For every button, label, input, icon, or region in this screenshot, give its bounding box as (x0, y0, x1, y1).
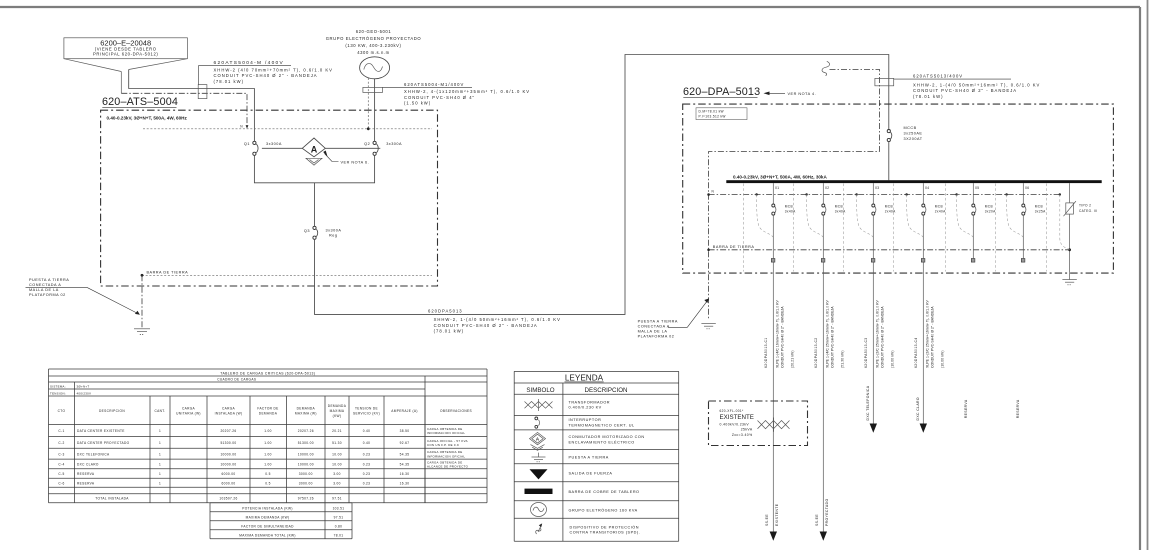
svg-text:1.00: 1.00 (264, 441, 272, 445)
svg-text:DATA CENTER PROYECTADO: DATA CENTER PROYECTADO (77, 441, 130, 445)
feeder source box 6200-E-20048 (64, 38, 187, 72)
svg-text:3000.00: 3000.00 (299, 472, 313, 476)
svg-text:10000.00: 10000.00 (220, 463, 236, 467)
svg-text:02: 02 (825, 186, 829, 190)
svg-text:VER NOTA 6.: VER NOTA 6. (341, 160, 370, 164)
ATS neutral bar (dotted) (143, 128, 432, 130)
svg-text:XLPE 1-(2/C 25mm²+16mm² T), 0.: XLPE 1-(2/C 25mm²+16mm² T), 0.6/1.0 KV (875, 299, 879, 368)
svg-text:620ATS5004-M /400V: 620ATS5004-M /400V (214, 60, 285, 66)
svg-text:3x250AE: 3x250AE (904, 131, 923, 135)
legend text power outlet (569, 471, 613, 475)
circuit 04 neutral hook (905, 193, 923, 237)
cable label 620ATS5013/400V (894, 74, 1041, 99)
svg-text:54.35: 54.35 (400, 452, 410, 456)
svg-text:CARGA: CARGA (182, 406, 196, 410)
feeder drop C-4 destination label (916, 397, 920, 420)
svg-text:DXC CLARO: DXC CLARO (916, 397, 920, 420)
svg-text:EXISTENTE: EXISTENTE (720, 414, 754, 421)
svg-text:3x300A: 3x300A (266, 142, 282, 146)
load table headers (58, 404, 472, 418)
svg-text:06: 06 (1025, 186, 1029, 190)
svg-text:XLPE 1-(4/C 25mm²+16mm² T), 0.: XLPE 1-(4/C 25mm²+16mm² T), 0.6/1.0 KV (825, 299, 829, 368)
svg-text:103507.26: 103507.26 (219, 497, 237, 501)
circuit 06 separator (995, 184, 997, 272)
svg-text:3000.00: 3000.00 (299, 482, 313, 486)
svg-text:620ATS5013/400V: 620ATS5013/400V (913, 74, 963, 79)
svg-text:CONDUIT PVC-SH40 Ø 2" - BANDEJ: CONDUIT PVC-SH40 Ø 2" - BANDEJA (881, 306, 885, 368)
svg-text:MCB: MCB (785, 205, 793, 209)
svg-text:51.30: 51.30 (332, 441, 342, 445)
load table data rows (58, 427, 468, 486)
svg-text:ALCANCE DE PROYECTO: ALCANCE DE PROYECTO (427, 465, 469, 469)
svg-text:3x40A: 3x40A (835, 210, 846, 214)
feeder drop C-3 cable spec (875, 299, 894, 368)
svg-text:TABLERO DE CARGAS CRITICAS (62: TABLERO DE CARGAS CRITICAS (620-DPA-5013… (220, 371, 315, 375)
ATS ground bar BARRA DE TIERRA (141, 271, 432, 277)
note PUESTA A TIERRA (ATS) with leader (26, 278, 140, 315)
legend symbol motorized switch (530, 432, 546, 450)
svg-text:XLPE 1-(2/C 25mm²+16mm² T), 0.: XLPE 1-(2/C 25mm²+16mm² T), 0.6/1.0 KV (925, 299, 929, 368)
transformer T1 winding symbol (758, 418, 790, 432)
svg-text:MAXIMA DEMANDA TOTAL (KW): MAXIMA DEMANDA TOTAL (KW) (239, 533, 296, 537)
svg-text:SS.EE: SS.EE (765, 514, 769, 526)
svg-text:1: 1 (159, 429, 161, 433)
svg-text:(1.50 kW): (1.50 kW) (404, 100, 431, 105)
svg-text:RESERVA: RESERVA (1016, 399, 1020, 418)
feeder drop C-4 cable spec (925, 299, 944, 368)
circuit 04 tap and breaker MCB 2x40A (922, 183, 946, 215)
svg-text:INFORMACION OFICIAL: INFORMACION OFICIAL (427, 431, 465, 435)
svg-text:PUESTA A TIERRA: PUESTA A TIERRA (29, 278, 69, 282)
svg-text:16.30: 16.30 (400, 472, 410, 476)
svg-text:MAXIMA: MAXIMA (330, 409, 345, 413)
feeder drop C-2 (820, 262, 827, 541)
svg-text:PLATAFORMA 02: PLATAFORMA 02 (638, 334, 675, 338)
svg-text:97507.26: 97507.26 (298, 497, 314, 501)
svg-text:ENCLAVAMIENTO ELÉCTRICO: ENCLAVAMIENTO ELÉCTRICO (569, 439, 635, 444)
svg-text:0.40-0.23kV, 3Ø+N+T, 500A, 4W,: 0.40-0.23kV, 3Ø+N+T, 500A, 4W, 60Hz, 30k… (733, 175, 827, 180)
svg-text:PROYECTADO: PROYECTADO (825, 499, 829, 527)
svg-text:CON UN F.P. DE 0.9: CON UN F.P. DE 0.9 (427, 443, 459, 447)
svg-text:620DPA5013: 620DPA5013 (428, 308, 463, 313)
svg-text:(20.21 kW): (20.21 kW) (790, 350, 794, 368)
feeder drop C-2 cable tag (814, 337, 818, 368)
svg-text:103.51: 103.51 (333, 506, 345, 510)
svg-text:RESERVA: RESERVA (77, 472, 95, 476)
circuit 05 outgoing wire and meter square (971, 215, 975, 262)
svg-text:10.00: 10.00 (332, 452, 342, 456)
circuit 02 neutral hook (805, 193, 823, 237)
svg-text:3.00: 3.00 (333, 482, 341, 486)
circuit 06 outgoing wire and meter square (1021, 215, 1025, 262)
circuit 04 separator (893, 184, 895, 272)
svg-text:MCCB: MCCB (904, 126, 917, 130)
svg-text:GRUPO ELETRÓGENO 160 KVA: GRUPO ELETRÓGENO 160 KVA (569, 507, 638, 512)
svg-text:0.23: 0.23 (363, 482, 371, 486)
svg-text:0.40: 0.40 (363, 441, 371, 445)
svg-text:51300.00: 51300.00 (220, 441, 236, 445)
svg-text:C-3: C-3 (58, 452, 64, 456)
svg-text:1: 1 (159, 472, 161, 476)
border frame right line (1139, 7, 1141, 550)
svg-text:XLPE 1-(4/C 16mm²+16mm² T), 0.: XLPE 1-(4/C 16mm²+16mm² T), 0.6/1.0 KV (775, 299, 779, 368)
conduit symbol feeder cable (198, 85, 207, 99)
svg-text:DATA CENTER EXISTENTE: DATA CENTER EXISTENTE (77, 429, 125, 433)
svg-text:A: A (311, 145, 318, 155)
svg-text:620DPA5013-C1: 620DPA5013-C1 (764, 337, 768, 368)
svg-text:TOTAL INSTALADA: TOTAL INSTALADA (95, 497, 129, 501)
svg-text:PUESTA A TIERRA: PUESTA A TIERRA (569, 455, 609, 459)
cable label 620ATS5004-M1/400V (383, 82, 531, 105)
circuit 02 separator (793, 184, 795, 272)
feeder drop C-4 (920, 262, 927, 433)
circuit 01 outgoing wire and meter square (771, 215, 775, 262)
svg-text:PLATAFORMA 02: PLATAFORMA 02 (29, 293, 66, 297)
svg-text:MALLA DE LA: MALLA DE LA (638, 329, 668, 333)
svg-text:C-1: C-1 (58, 429, 64, 433)
svg-text:0.400/0.230 KV: 0.400/0.230 KV (569, 406, 602, 410)
feeder drop C-1 cable spec (775, 299, 794, 368)
feeder drop C-2 destination label (815, 499, 829, 527)
svg-text:SERVICIO (KV): SERVICIO (KV) (353, 412, 380, 416)
legend text transformer (569, 400, 611, 409)
svg-text:CUADRO DE CARGAS: CUADRO DE CARGAS (217, 378, 256, 382)
svg-text:Reg: Reg (329, 234, 337, 238)
svg-text:10000.00: 10000.00 (220, 452, 236, 456)
svg-text:TIPO 2: TIPO 2 (1079, 204, 1091, 208)
svg-text:MCB: MCB (985, 205, 993, 209)
svg-text:AMPERAJE (A): AMPERAJE (A) (391, 409, 418, 413)
svg-text:400/230V: 400/230V (77, 391, 92, 395)
svg-text:97.51: 97.51 (332, 497, 342, 501)
busbar rating label (733, 175, 827, 180)
panel title 620-DPA-5013 (683, 86, 760, 98)
wire feeder phase (solid) to Q1 (129, 70, 255, 142)
svg-text:PRINCIPAL 620-DPA-5012): PRINCIPAL 620-DPA-5012) (93, 51, 158, 56)
svg-text:DEMANDA: DEMANDA (259, 412, 278, 416)
svg-text:620ATS5004-M1/400V: 620ATS5004-M1/400V (404, 82, 464, 87)
svg-text:GRUPO ELECTRÓGENO PROYECTADO: GRUPO ELECTRÓGENO PROYECTADO (326, 36, 422, 41)
svg-text:CONDUIT PVC-SH40 Ø 4": CONDUIT PVC-SH40 Ø 4" (404, 95, 475, 100)
svg-text:POTENCIA INSTALADA (KW): POTENCIA INSTALADA (KW) (242, 506, 293, 510)
svg-text:TENSION DE: TENSION DE (355, 406, 378, 410)
circuit C-5 reserva label (964, 399, 968, 418)
svg-text:3Ø+N+T: 3Ø+N+T (77, 384, 90, 388)
leader VER NOTA 6 (323, 151, 369, 165)
wire feeder neutral (dash-dot) to neutral bar (121, 72, 248, 129)
svg-text:DEMANDA: DEMANDA (297, 406, 316, 410)
legend table LEYENDA grid (514, 371, 679, 541)
svg-text:04: 04 (925, 186, 929, 190)
svg-text:DISPOSITIVO DE PROTECCIÓN: DISPOSITIVO DE PROTECCIÓN (570, 524, 639, 529)
circuit 01 separator (743, 184, 745, 272)
svg-text:RESERVA: RESERVA (964, 399, 968, 418)
feeder drop C-1 (770, 262, 777, 541)
feeder drop C-2 cable spec (825, 299, 844, 368)
circuit 03 neutral hook (855, 193, 873, 237)
circuit 01 tap and breaker MCB 3x40A (772, 183, 796, 215)
svg-text:3.00: 3.00 (333, 472, 341, 476)
svg-text:6000.00: 6000.00 (222, 472, 236, 476)
svg-text:UNITARIA (W): UNITARIA (W) (176, 412, 201, 416)
svg-text:2x40A: 2x40A (885, 210, 896, 214)
ATS rating label (107, 116, 188, 121)
svg-text:3x300A: 3x300A (386, 142, 402, 146)
svg-text:TRANSFORMADOR: TRANSFORMADOR (569, 400, 611, 404)
load table CUADRO DE CARGAS grid (49, 369, 488, 539)
breaker Q1 3x300A (244, 141, 282, 155)
svg-text:OBSERVACIONES: OBSERVACIONES (440, 409, 472, 413)
svg-text:1.00: 1.00 (264, 429, 272, 433)
svg-text:92.67: 92.67 (400, 441, 410, 445)
svg-text:CONDUIT PVC-SH40 Ø 2" - BANDEJ: CONDUIT PVC-SH40 Ø 2" - BANDEJA (931, 306, 935, 368)
generator G1 symbol (360, 57, 390, 79)
legend text copper bar (569, 490, 640, 494)
svg-text:MCB: MCB (1035, 205, 1043, 209)
svg-text:4300 m.s.n.m: 4300 m.s.n.m (357, 50, 390, 55)
svg-text:(KW): (KW) (333, 414, 342, 418)
svg-text:C-5: C-5 (58, 472, 64, 476)
panel title 620-ATS-5004 (102, 96, 178, 108)
leader arrow VER NOTA 4 (764, 92, 817, 97)
svg-text:INSTALADA (W): INSTALADA (W) (215, 412, 243, 416)
svg-text:Q2: Q2 (364, 142, 370, 146)
wire ATS output route to DPA panel (315, 55, 889, 315)
svg-text:0.80: 0.80 (335, 524, 343, 528)
wire MCCB to busbar (888, 142, 890, 181)
border sheet edge line (1147, 0, 1149, 550)
breaker Q2 3x300A (364, 141, 402, 155)
svg-text:XHHW-2, 4-(1x120mm²+35mm² T),: XHHW-2, 4-(1x120mm²+35mm² T), 0.6/1.0 KV (404, 89, 530, 94)
svg-text:3x25A: 3x25A (1035, 210, 1046, 214)
svg-text:0.40-0.23kV, 3Ø+N+T, 500A, 4W,: 0.40-0.23kV, 3Ø+N+T, 500A, 4W, 60Hz (107, 116, 188, 121)
svg-text:CTO: CTO (58, 409, 66, 413)
svg-text:C-2: C-2 (58, 441, 64, 445)
svg-text:05: 05 (975, 186, 979, 190)
legend text motorized switch (569, 435, 645, 444)
feeder drop C-3 (870, 262, 877, 433)
circuit 04 outgoing wire and meter square (921, 215, 925, 262)
ATS enclosure dashed box (101, 110, 438, 286)
svg-text:(78.01 kW): (78.01 kW) (434, 328, 464, 333)
conduit symbol generator cable (363, 87, 383, 92)
cable label 620ATS5004-M /400V (199, 60, 333, 85)
svg-text:25kVA: 25kVA (741, 428, 753, 432)
svg-text:Zcc=3.40%: Zcc=3.40% (732, 433, 753, 437)
svg-text:DESCRIPCION: DESCRIPCION (585, 387, 628, 394)
circuit 05 separator (945, 184, 947, 272)
svg-text:20207.26: 20207.26 (220, 429, 236, 433)
wire DPA neutral dash-dot route (707, 69, 879, 318)
svg-text:FACTOR DE SIMULTANEIDAD: FACTOR DE SIMULTANEIDAD (241, 524, 294, 528)
svg-text:97.51: 97.51 (334, 515, 344, 519)
svg-text:0.23: 0.23 (363, 472, 371, 476)
svg-text:620DPA5013-C3: 620DPA5013-C3 (864, 337, 868, 368)
svg-text:(10.00 kW): (10.00 kW) (940, 350, 944, 368)
load table titles (50, 371, 315, 395)
svg-text:0.23: 0.23 (363, 463, 371, 467)
legend titles (526, 374, 627, 395)
svg-text:CATEG. III: CATEG. III (1079, 209, 1098, 213)
svg-text:620-GEO-5001: 620-GEO-5001 (356, 29, 392, 34)
svg-text:EXISTENTE: EXISTENTE (775, 503, 779, 526)
svg-text:BARRA DE TIERRA: BARRA DE TIERRA (147, 271, 189, 275)
svg-text:TERMOMAGNETICO CERT. UL: TERMOMAGNETICO CERT. UL (569, 423, 635, 427)
svg-text:16.30: 16.30 (400, 482, 410, 486)
svg-text:1.00: 1.00 (264, 463, 272, 467)
wire Q1/Q2 output bar (254, 155, 374, 182)
svg-text:RESERVA: RESERVA (77, 482, 95, 486)
legend symbol transformer (525, 399, 553, 411)
svg-text:620DPA5013-C4: 620DPA5013-C4 (914, 337, 918, 368)
border frame top line (0, 6, 1140, 8)
svg-text:1: 1 (159, 463, 161, 467)
svg-text:FACTOR DE: FACTOR DE (257, 406, 278, 410)
break symbol (continuation squiggle) (822, 61, 830, 75)
circuit 06 neutral hook (1005, 193, 1023, 237)
svg-text:1: 1 (159, 482, 161, 486)
svg-text:CONMUTADOR MOTORIZADO CON: CONMUTADOR MOTORIZADO CON (569, 435, 645, 439)
svg-text:1: 1 (159, 441, 161, 445)
transfer switch diamond A (motorized) (302, 138, 325, 165)
svg-text:C-4: C-4 (58, 463, 64, 467)
svg-text:3x20A: 3x20A (985, 210, 996, 214)
circuit 03 outgoing wire and meter square (871, 215, 875, 262)
svg-text:SALIDA DE FUERZA: SALIDA DE FUERZA (569, 471, 613, 475)
transformer T1 620-XFL-001 existing box (709, 401, 808, 446)
svg-text:CONECTADA A: CONECTADA A (29, 283, 61, 287)
svg-text:P.I=103.512 kW: P.I=103.512 kW (699, 115, 726, 119)
svg-text:10000.00: 10000.00 (298, 452, 314, 456)
svg-text:CONDUIT PVC-SH40 Ø 2" - BANDEJ: CONDUIT PVC-SH40 Ø 2" - BANDEJA (434, 323, 538, 328)
svg-text:01: 01 (775, 186, 779, 190)
svg-text:XHHW-2 (4/0 70mm²+70mm² T), 0.: XHHW-2 (4/0 70mm²+70mm² T), 0.6/1.0 KV (214, 67, 333, 72)
feeder drop C-1 cable tag (764, 337, 768, 368)
svg-text:0.5: 0.5 (265, 482, 270, 486)
svg-text:DXC TELEFONICA: DXC TELEFONICA (866, 385, 870, 420)
legend symbol copper bar (525, 489, 553, 494)
svg-text:3x40A: 3x40A (785, 210, 796, 214)
circuit 03 separator (843, 184, 845, 272)
svg-text:LEYENDA: LEYENDA (565, 374, 604, 383)
feeder drop C-3 destination label (866, 385, 870, 420)
svg-text:TENSION:: TENSION: (50, 391, 66, 395)
wire generator neutral (dotted) to neutral bar (367, 78, 370, 130)
svg-text:(51.30 kW): (51.30 kW) (840, 350, 844, 368)
svg-text:1.00: 1.00 (264, 452, 272, 456)
svg-text:0.5: 0.5 (265, 472, 270, 476)
legend text ground (569, 455, 609, 459)
circuit 02 tap and breaker MCB 3x40A (822, 183, 846, 215)
svg-text:620–DPA–5013: 620–DPA–5013 (683, 86, 760, 98)
svg-text:(130 KW, 400-3.230kV): (130 KW, 400-3.230kV) (345, 43, 401, 48)
svg-text:3X200AT: 3X200AT (904, 137, 923, 141)
wire bar to Q3 (314, 183, 316, 227)
svg-text:CONDUIT PVC-SH40 Ø 2" - BANDEJ: CONDUIT PVC-SH40 Ø 2" - BANDEJA (831, 306, 835, 368)
svg-text:54.35: 54.35 (400, 463, 410, 467)
load table total row (95, 497, 342, 501)
generator G1 620-GEO-5001 labels (326, 29, 422, 55)
svg-text:Q3: Q3 (304, 229, 310, 233)
legend text SPD (570, 524, 641, 534)
svg-text:XHHW-2, 1-(4/0 50mm²+16mm² T),: XHHW-2, 1-(4/0 50mm²+16mm² T), 0.6/1.0 K… (913, 83, 1040, 88)
svg-text:N: N (240, 125, 243, 129)
svg-text:(10.00 kW): (10.00 kW) (890, 350, 894, 368)
svg-text:MAXIMA DEMANDA (KW): MAXIMA DEMANDA (KW) (246, 515, 290, 519)
svg-text:2x40A: 2x40A (935, 210, 946, 214)
svg-text:6000.00: 6000.00 (222, 482, 236, 486)
circuit 05 neutral hook (955, 193, 973, 237)
neutral bar N (709, 189, 1060, 194)
svg-text:C-6: C-6 (58, 482, 64, 486)
legend symbol breaker (535, 417, 540, 428)
svg-text:Q1: Q1 (244, 142, 250, 146)
svg-text:BARRA DE TIERRA: BARRA DE TIERRA (713, 245, 755, 249)
svg-text:MCB: MCB (935, 205, 943, 209)
svg-text:SISTEMA:: SISTEMA: (50, 384, 66, 388)
svg-text:0.40: 0.40 (363, 429, 371, 433)
svg-text:20207.26: 20207.26 (298, 429, 314, 433)
svg-text:D.M=78.01 kW: D.M=78.01 kW (699, 110, 724, 114)
svg-text:1: 1 (159, 452, 161, 456)
DPA enclosure dashed box (683, 104, 1114, 273)
svg-text:78.01: 78.01 (334, 533, 344, 537)
svg-text:BARRA DE COBRE DE TABLERO: BARRA DE COBRE DE TABLERO (569, 490, 640, 494)
svg-text:INFORMACION OFICIAL: INFORMACION OFICIAL (427, 454, 465, 458)
svg-text:38.50: 38.50 (400, 429, 410, 433)
wire generator phase (solid) to Q2 (374, 79, 376, 142)
svg-text:CANT.: CANT. (155, 409, 166, 413)
svg-text:INTERRUPTOR: INTERRUPTOR (569, 418, 602, 422)
svg-text:CONDUIT PVC-SH40 Ø 2" - BANDEJ: CONDUIT PVC-SH40 Ø 2" - BANDEJA (214, 73, 318, 78)
svg-text:CONDUIT PVC-SH40 Ø 2" - BANDEJ: CONDUIT PVC-SH40 Ø 2" - BANDEJA (781, 306, 785, 368)
circuit 06 tap and breaker MCB 3x25A (1022, 183, 1046, 215)
svg-text:620-XFL-001*: 620-XFL-001* (720, 409, 744, 413)
legend text breaker (569, 418, 635, 427)
svg-text:DESCRIPCION: DESCRIPCION (99, 409, 125, 413)
conduit symbol DPA feeder cable (875, 78, 894, 85)
svg-text:(78.01 kW): (78.01 kW) (913, 94, 943, 99)
circuit C-6 reserva label (1016, 399, 1020, 418)
svg-text:DEMANDA: DEMANDA (328, 404, 347, 408)
wire diamond to Q2 (325, 147, 380, 149)
legend symbol power outlet arrow (530, 469, 548, 479)
svg-text:XHHW-2, 1-(4/0 50mm²+16mm² T),: XHHW-2, 1-(4/0 50mm²+16mm² T), 0.6/1.0 K… (434, 317, 561, 322)
svg-text:PUESTA A TIERRA: PUESTA A TIERRA (638, 319, 678, 323)
legend symbol generator (531, 503, 547, 517)
ground bar BARRA DE TIERRA (DPA) (709, 245, 1070, 250)
DPA ground symbol (N/PE riser) (701, 324, 715, 329)
svg-text:620DPA5013-C2: 620DPA5013-C2 (814, 337, 818, 368)
svg-text:620–ATS–5004: 620–ATS–5004 (102, 96, 178, 108)
cable label 620DPA5013 feeder (428, 308, 561, 333)
svg-text:DXC TELEFONICA: DXC TELEFONICA (77, 452, 110, 456)
circuit 01 neutral hook (755, 193, 773, 237)
svg-text:MAXIMA (W): MAXIMA (W) (295, 412, 317, 416)
circuit 03 tap and breaker MCB 2x40A (872, 183, 896, 215)
demand data box (696, 108, 747, 120)
ATS ground riser and symbol (134, 275, 150, 334)
feeder drop C-3 cable tag (864, 337, 868, 368)
svg-text:10000.00: 10000.00 (298, 463, 314, 467)
svg-text:51300.00: 51300.00 (298, 441, 314, 445)
legend symbol SPD (536, 523, 542, 534)
svg-text:DXC CLARO: DXC CLARO (77, 463, 99, 467)
separator right of circuit 06 (1045, 184, 1047, 272)
svg-text:MCB: MCB (835, 205, 843, 209)
SPD neutral link (1059, 193, 1070, 249)
svg-text:MALLA DE LA: MALLA DE LA (29, 288, 59, 292)
